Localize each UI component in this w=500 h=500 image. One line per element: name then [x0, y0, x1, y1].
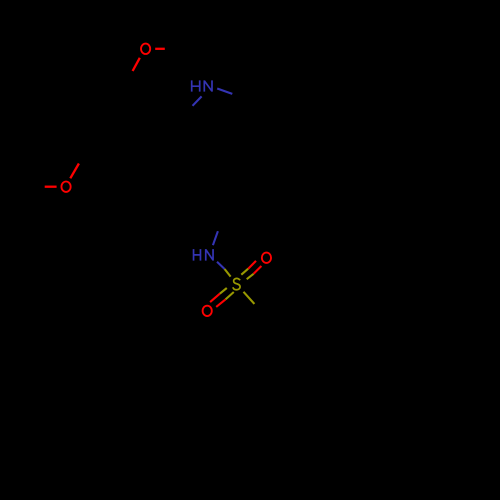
- bond O2-C(ring) (O half): [70, 164, 79, 179]
- bond N1-CH3 (N half): [217, 89, 232, 94]
- double bond S=O3 line B (O half): [254, 266, 262, 274]
- bond O1-C(ring) (O half): [133, 58, 140, 71]
- double bond S=O4 line B (S half): [226, 292, 234, 299]
- double bond S=O3 line A (O half): [248, 261, 256, 269]
- bond C-N2 (N half): [213, 231, 218, 245]
- atom N1 (amine NH, top): N glyph: [204, 80, 212, 91]
- atom O2 (left methoxy oxygen): [61, 182, 70, 192]
- double bond S=O4 line A (S half): [220, 288, 227, 294]
- double bond S=O4 line A (O half): [210, 294, 220, 302]
- double bond S=O4 line B (O half): [216, 299, 225, 307]
- bond O2-CH3 (left methoxy, O half): [45, 186, 57, 188]
- atom N2 (sulfonamide NH): H glyph: [194, 249, 201, 261]
- bond N2-S (S half): [225, 269, 231, 277]
- bond O1-CH3 (top methoxy, O half): [155, 48, 165, 50]
- double bond S=O3 line B (S half): [247, 274, 254, 279]
- atom O3 (sulfonyl oxygen, upper right): [262, 253, 271, 263]
- double bond S=O3 line A (S half): [241, 269, 248, 275]
- atom S (sulfonyl sulfur) glyph: [233, 278, 240, 289]
- atom N2 (sulfonamide NH): N glyph: [206, 249, 213, 261]
- bond N2-S (N half): [217, 262, 225, 269]
- atom N1 (amine NH, top): H glyph: [192, 80, 200, 91]
- bond S-C(alkyl) (S half): [244, 292, 255, 304]
- bond N1-CH (N half): [193, 96, 202, 105]
- atom O4 (sulfonyl oxygen, lower left): [203, 306, 212, 316]
- atom O1 (top methoxy oxygen): [141, 44, 150, 54]
